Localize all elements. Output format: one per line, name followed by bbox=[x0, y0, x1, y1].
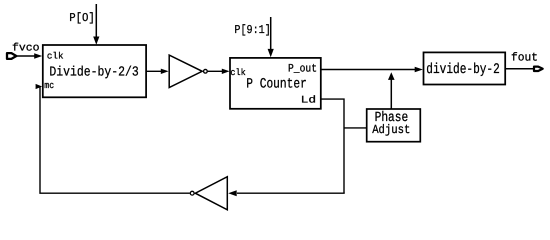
wire feedback bottom to inverter bbox=[228, 190, 345, 196]
svg-text:Ld: Ld bbox=[301, 95, 317, 107]
svg-text:clk: clk bbox=[230, 67, 246, 78]
svg-text:P_out: P_out bbox=[288, 64, 317, 76]
svg-text:P Counter: P Counter bbox=[246, 77, 306, 93]
wire P[0] into divide-by-2/3 bbox=[93, 4, 99, 45]
svg-text:divide-by-2: divide-by-2 bbox=[426, 62, 500, 78]
svg-text:P[O]: P[O] bbox=[69, 11, 95, 25]
output port fout bbox=[534, 67, 543, 71]
wire P[9:1] into P Counter bbox=[268, 17, 274, 57]
wire branch to Phase Adjust bbox=[344, 127, 367, 129]
block U6 divide-by-2 bbox=[424, 52, 506, 84]
wire fvco to clk bbox=[17, 53, 42, 58]
wire Phase Adjust up-arrow to P_out wire bbox=[388, 72, 395, 109]
inverter U2 bbox=[169, 55, 207, 88]
wire divide-by-2/3 output to inverter bbox=[147, 69, 169, 74]
svg-text:clk: clk bbox=[47, 50, 64, 61]
block U1 Divide-by-2/3 bbox=[43, 45, 146, 97]
wire Ld to feedback vertical bbox=[321, 99, 344, 193]
wire P_out to divide-by-2 bbox=[321, 67, 423, 73]
wire inverter to mc bbox=[36, 84, 190, 193]
block U3 P Counter bbox=[230, 58, 321, 109]
svg-text:P[9:1]: P[9:1] bbox=[234, 23, 270, 37]
block U4 Phase Adjust bbox=[367, 109, 421, 142]
wire inverter to P Counter clk bbox=[208, 69, 230, 74]
svg-text:Adjust: Adjust bbox=[372, 123, 410, 137]
svg-text:fout: fout bbox=[511, 52, 538, 65]
wire divide-by-2 to fout port bbox=[505, 68, 534, 70]
svg-text:fvco: fvco bbox=[12, 43, 40, 55]
input port fvco bbox=[7, 53, 16, 59]
svg-text:Divide-by-2/3: Divide-by-2/3 bbox=[49, 66, 138, 81]
inverter U5 (feedback) bbox=[190, 177, 227, 210]
svg-text:mc: mc bbox=[44, 80, 54, 91]
